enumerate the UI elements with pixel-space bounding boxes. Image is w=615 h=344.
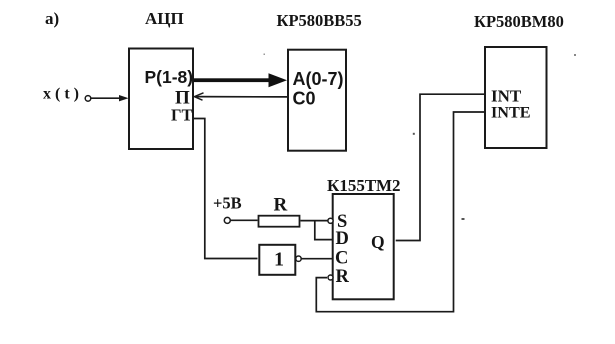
svg-text:1: 1 <box>274 249 284 271</box>
svg-text:Q: Q <box>371 232 385 252</box>
svg-text:R: R <box>336 267 350 287</box>
svg-text:D: D <box>336 229 349 249</box>
svg-text:x ( t ): x ( t ) <box>43 86 79 103</box>
svg-text:КР580ВВ55: КР580ВВ55 <box>277 11 362 30</box>
svg-text:C: C <box>335 249 348 269</box>
svg-text:С0: С0 <box>293 89 316 109</box>
svg-text:А(0-7): А(0-7) <box>293 69 344 89</box>
svg-text:КР580ВМ80: КР580ВМ80 <box>474 12 564 31</box>
svg-text:R: R <box>274 195 288 216</box>
svg-text:ГТ: ГТ <box>171 106 193 125</box>
svg-text:АЦП: АЦП <box>145 9 184 28</box>
svg-text:Р(1-8): Р(1-8) <box>145 67 194 87</box>
svg-text:а): а) <box>45 9 59 28</box>
svg-text:К155ТМ2: К155ТМ2 <box>327 176 401 195</box>
svg-text:INTE: INTE <box>491 104 531 122</box>
svg-text:+5В: +5В <box>213 194 242 213</box>
